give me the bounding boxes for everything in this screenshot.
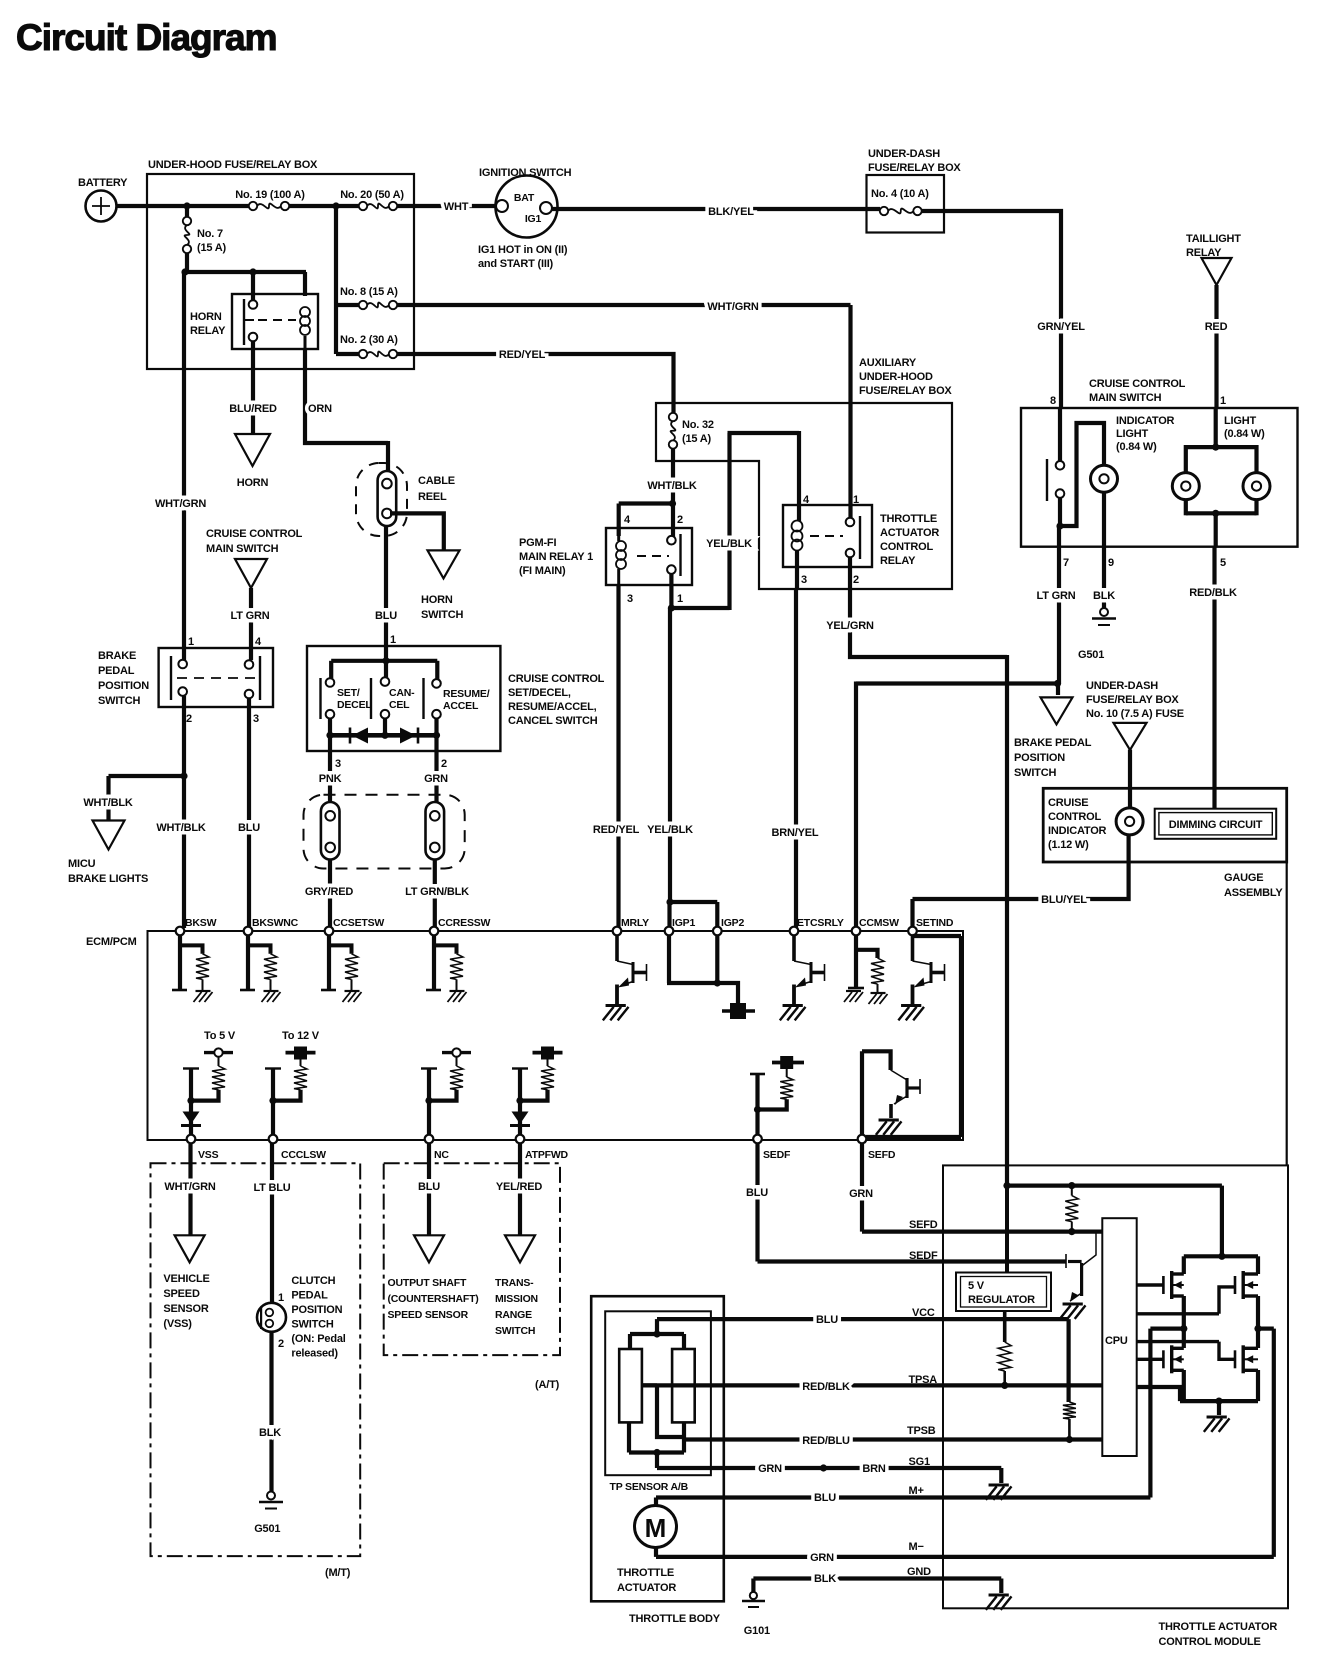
svg-text:BATTERY: BATTERY: [78, 177, 128, 189]
svg-text:LT GRN: LT GRN: [231, 610, 270, 622]
svg-text:SWITCH: SWITCH: [421, 609, 463, 621]
svg-text:IGP1: IGP1: [672, 917, 695, 929]
wire YEL/RED ATPFWD: [496, 1143, 543, 1235]
svg-text:WHT/BLK: WHT/BLK: [647, 480, 697, 492]
svg-text:SEDF: SEDF: [909, 1250, 938, 1262]
svg-text:VEHICLE: VEHICLE: [163, 1273, 209, 1285]
svg-text:WHT: WHT: [444, 201, 469, 213]
svg-text:WHT/BLK: WHT/BLK: [83, 797, 133, 809]
wire BLU/YEL indicator to ECM SETIND: [913, 835, 1129, 928]
svg-text:BLU: BLU: [375, 610, 397, 622]
svg-text:(FI MAIN): (FI MAIN): [519, 565, 566, 577]
ECM pin CCMSW: [852, 917, 899, 935]
wire BLU brake switch pin 3 to ECM BKSWNC: [238, 698, 260, 928]
svg-text:WHT/GRN: WHT/GRN: [155, 498, 206, 510]
ECM SETIND transistor: [898, 935, 944, 1020]
regulator transistor: [1060, 1233, 1096, 1319]
svg-text:POSITION: POSITION: [1014, 752, 1065, 764]
svg-text:CAN-: CAN-: [389, 687, 415, 699]
svg-text:CRUISE CONTROL: CRUISE CONTROL: [206, 528, 303, 540]
wire GRN SEFD: [849, 1143, 873, 1232]
M/T dashed box: [151, 1163, 361, 1579]
svg-text:2: 2: [677, 514, 683, 526]
ECM SEFD transistor: [862, 1051, 920, 1137]
throttle body box: [591, 1296, 724, 1625]
svg-text:CLUTCH: CLUTCH: [291, 1275, 335, 1287]
svg-text:NC: NC: [434, 1149, 449, 1161]
svg-text:SEDF: SEDF: [763, 1149, 791, 1161]
svg-text:FUSE/RELAY BOX: FUSE/RELAY BOX: [859, 385, 952, 397]
vehicle speed sensor triangle: [163, 1235, 209, 1330]
svg-text:(ON: Pedal: (ON: Pedal: [291, 1333, 345, 1345]
svg-text:RED/BLK: RED/BLK: [1189, 587, 1237, 599]
wire WHT/BLK brake switch pin 2 to ECM BKSW: [156, 696, 206, 928]
svg-text:1: 1: [390, 634, 396, 646]
wire BLU/RED horn relay to horn: [229, 341, 277, 433]
svg-text:ETCSRLY: ETCSRLY: [797, 917, 844, 929]
ECM pin VSS: [187, 1135, 219, 1161]
svg-text:BLK/YEL: BLK/YEL: [708, 206, 754, 218]
svg-text:CPU: CPU: [1105, 1335, 1128, 1347]
svg-text:BRAKE: BRAKE: [98, 650, 136, 662]
svg-text:SWITCH: SWITCH: [1014, 767, 1056, 779]
svg-text:3: 3: [253, 713, 259, 725]
svg-text:ORN: ORN: [308, 403, 332, 415]
H-bridge top node: [1184, 1186, 1258, 1260]
svg-text:5: 5: [1220, 557, 1226, 569]
wire WHT/BLK branch to MICU: [83, 776, 184, 820]
svg-text:and START (III): and START (III): [478, 258, 554, 270]
svg-text:CRUISE CONTROL: CRUISE CONTROL: [508, 673, 605, 685]
svg-text:YEL/BLK: YEL/BLK: [706, 538, 752, 550]
svg-text:2: 2: [278, 1338, 284, 1350]
ECM pin CCCLSW: [269, 1135, 326, 1161]
svg-text:No. 10 (7.5 A) FUSE: No. 10 (7.5 A) FUSE: [1086, 708, 1184, 720]
svg-text:LT BLU: LT BLU: [253, 1182, 290, 1194]
ECM SETIND bus wire (right edge): [866, 936, 961, 1137]
svg-text:(COUNTERSHAFT): (COUNTERSHAFT): [388, 1293, 479, 1305]
wire BLU NC: [418, 1143, 440, 1235]
wire YEL/GRN TAC relay pin 2 down to TAC module: [826, 557, 1007, 1186]
svg-text:AUXILIARY: AUXILIARY: [859, 357, 917, 369]
wire SG1 GRN-BRN: [657, 1456, 1012, 1500]
svg-text:POSITION: POSITION: [291, 1304, 342, 1316]
svg-text:BKSW: BKSW: [185, 917, 217, 929]
svg-text:SG1: SG1: [909, 1456, 930, 1468]
svg-text:No. 7: No. 7: [197, 228, 223, 240]
ECM SEDF pull-up unit: [750, 1056, 804, 1137]
wire BLU SEDF: [746, 1143, 768, 1262]
MICU brake lights triangle: [68, 821, 148, 886]
svg-text:No. 8 (15 A): No. 8 (15 A): [340, 286, 398, 298]
svg-text:BKSWNC: BKSWNC: [252, 917, 299, 929]
svg-text:CONTROL: CONTROL: [880, 541, 933, 553]
svg-text:1: 1: [188, 636, 194, 648]
cruise control set/decel resume/accel cancel switch: [307, 646, 500, 751]
svg-text:YEL/RED: YEL/RED: [496, 1181, 543, 1193]
ECM pin BKSW: [176, 917, 217, 935]
svg-text:SETIND: SETIND: [916, 917, 954, 929]
svg-text:2: 2: [853, 574, 859, 586]
svg-text:SPEED: SPEED: [163, 1288, 200, 1300]
svg-text:THROTTLE: THROTTLE: [880, 513, 937, 525]
svg-text:3: 3: [627, 593, 633, 605]
svg-text:OUTPUT SHAFT: OUTPUT SHAFT: [388, 1277, 467, 1289]
svg-text:3: 3: [335, 758, 341, 770]
throttle actuator control relay: [783, 494, 939, 586]
auxiliary under-hood fuse/relay box: [656, 357, 952, 589]
svg-text:TAILLIGHT: TAILLIGHT: [1186, 233, 1241, 245]
svg-text:BLK: BLK: [1093, 590, 1115, 602]
wire BLK pin 9 to G501: [1093, 493, 1115, 609]
svg-text:PNK: PNK: [319, 773, 342, 785]
svg-text:POSITION: POSITION: [98, 680, 149, 692]
svg-text:2: 2: [441, 758, 447, 770]
svg-text:CONTROL: CONTROL: [1048, 811, 1101, 823]
svg-text:ACCEL: ACCEL: [443, 700, 479, 712]
svg-text:GRN: GRN: [849, 1188, 873, 1200]
ECM ATPFWD unit (to 12V, diode): [510, 1047, 563, 1138]
svg-text:SENSOR: SENSOR: [163, 1303, 209, 1315]
svg-text:1: 1: [278, 1292, 284, 1304]
svg-text:GRN: GRN: [758, 1463, 782, 1475]
cruise switch lights (0.84 W): [1172, 408, 1270, 569]
wire BLK clutch switch to G501: [259, 1332, 281, 1492]
wire fuse No.10 to cruise control indicator: [1128, 750, 1132, 808]
output shaft speed sensor triangle: [388, 1235, 479, 1321]
svg-text:RED/YEL: RED/YEL: [593, 824, 640, 836]
ground G501 (main switch): [1078, 608, 1116, 661]
svg-text:HORN: HORN: [190, 311, 222, 323]
ECM MRLY transistor: [603, 935, 647, 1020]
wire TPSA RED/BLK: [642, 1374, 1102, 1393]
svg-text:WHT/GRN: WHT/GRN: [707, 301, 758, 313]
svg-text:9: 9: [1108, 557, 1114, 569]
svg-text:CANCEL SWITCH: CANCEL SWITCH: [508, 715, 598, 727]
fuse No.20 (50 A): [340, 189, 404, 210]
svg-text:THROTTLE ACTUATOR: THROTTLE ACTUATOR: [1159, 1621, 1278, 1633]
svg-text:THROTTLE: THROTTLE: [617, 1567, 674, 1579]
svg-text:M−: M−: [909, 1541, 924, 1553]
svg-text:SET/DECEL,: SET/DECEL,: [508, 687, 571, 699]
svg-text:G501: G501: [1078, 649, 1104, 661]
cable reel connectors (set/resume wires): [304, 795, 465, 869]
node brake pedal position switch junction: [1054, 680, 1061, 695]
svg-text:FUSE/RELAY BOX: FUSE/RELAY BOX: [868, 162, 961, 174]
ECM pin CCRESSW: [430, 917, 491, 935]
svg-text:RESUME/: RESUME/: [443, 688, 490, 700]
svg-text:1: 1: [1220, 395, 1226, 407]
SEFD pull-up resistor: [1065, 1186, 1078, 1232]
wire RED/BLK pin 5 to dimming circuit: [1189, 547, 1237, 809]
svg-text:(0.84 W): (0.84 W): [1116, 441, 1157, 453]
svg-text:UNDER-DASH: UNDER-DASH: [1086, 680, 1158, 692]
transmission range switch triangle: [495, 1235, 538, 1337]
TP sensor bottom bus: [629, 1422, 684, 1468]
ECM CCMSW unit: [844, 935, 888, 1004]
svg-text:G501: G501: [254, 1523, 280, 1535]
svg-text:REGULATOR: REGULATOR: [968, 1294, 1035, 1306]
svg-text:RESUME/ACCEL,: RESUME/ACCEL,: [508, 701, 597, 713]
ECM pin SEDF: [753, 1135, 791, 1161]
svg-text:ACTUATOR: ACTUATOR: [880, 527, 939, 539]
wire VCC: [657, 1307, 1069, 1402]
svg-text:BLU: BLU: [238, 822, 260, 834]
svg-text:IGP2: IGP2: [721, 917, 744, 929]
throttle actuator control module box: [943, 1165, 1288, 1648]
svg-text:LT GRN: LT GRN: [1037, 590, 1076, 602]
svg-text:BLU: BLU: [816, 1314, 838, 1326]
svg-text:TP SENSOR A/B: TP SENSOR A/B: [610, 1481, 689, 1493]
fuse No.19 (100 A): [235, 189, 305, 210]
horn relay: [190, 294, 318, 349]
svg-text:(15 A): (15 A): [197, 242, 226, 254]
svg-text:RED/BLU: RED/BLU: [802, 1435, 850, 1447]
svg-text:SWITCH: SWITCH: [495, 1325, 535, 1337]
svg-text:UNDER-DASH: UNDER-DASH: [868, 148, 940, 160]
svg-text:GRN: GRN: [424, 773, 448, 785]
brake pedal position switch feed triangle: [1014, 697, 1092, 779]
svg-text:BAT: BAT: [514, 192, 535, 204]
svg-text:(1.12 W): (1.12 W): [1048, 839, 1089, 851]
ECM pin MRLY: [613, 917, 649, 935]
cable reel: [356, 463, 455, 536]
horn switch: [421, 550, 463, 621]
svg-text:No. 19 (100 A): No. 19 (100 A): [235, 189, 305, 201]
fuse No.8 (15 A): [336, 286, 398, 309]
svg-text:UNDER-HOOD: UNDER-HOOD: [859, 371, 933, 383]
svg-text:PGM-FI: PGM-FI: [519, 537, 556, 549]
svg-text:WHT/BLK: WHT/BLK: [156, 822, 206, 834]
svg-text:(15 A): (15 A): [682, 433, 711, 445]
svg-text:7: 7: [1063, 557, 1069, 569]
svg-text:RELAY: RELAY: [880, 555, 916, 567]
svg-text:CEL: CEL: [389, 699, 410, 711]
ground G101: [742, 1579, 770, 1638]
TP sensor wiper taps: [642, 1385, 684, 1452]
CPU: [1102, 1218, 1136, 1456]
svg-text:MISSION: MISSION: [495, 1293, 538, 1305]
svg-text:SPEED SENSOR: SPEED SENSOR: [388, 1309, 469, 1321]
svg-text:SWITCH: SWITCH: [291, 1319, 333, 1331]
ignition switch: [478, 167, 572, 270]
svg-text:CCMSW: CCMSW: [859, 917, 899, 929]
svg-text:YEL/BLK: YEL/BLK: [647, 824, 693, 836]
svg-text:BLU: BLU: [418, 1181, 440, 1193]
svg-text:CRUISE CONTROL: CRUISE CONTROL: [1089, 378, 1186, 390]
wire cable reel to horn switch: [390, 513, 444, 550]
svg-text:RELAY: RELAY: [190, 325, 226, 337]
svg-text:To 5 V: To 5 V: [204, 1030, 236, 1042]
wire BLK/YEL ignition to under-dash fuse box: [552, 206, 880, 218]
svg-text:VSS: VSS: [198, 1149, 219, 1161]
svg-text:RED: RED: [1205, 321, 1228, 333]
ECM/PCM box: [86, 931, 963, 1140]
wire RED/YEL PGM-FI relay pin 3 to ECM MRLY: [593, 585, 640, 928]
module power rail: [1003, 1182, 1222, 1189]
svg-text:G101: G101: [744, 1625, 770, 1637]
svg-text:MAIN RELAY 1: MAIN RELAY 1: [519, 551, 593, 563]
ECM NC unit (to 5V): [421, 1048, 471, 1137]
wire GND BLK: [753, 1566, 1011, 1610]
taillight relay: [1186, 233, 1241, 285]
ECM IGP1/IGP2 internal bus: [667, 935, 755, 1019]
svg-text:LT GRN/BLK: LT GRN/BLK: [405, 886, 469, 898]
wire LT GRN to ECM CCMSW: [856, 682, 1058, 929]
svg-text:BLU: BLU: [746, 1187, 768, 1199]
svg-text:IG1 HOT in ON (II): IG1 HOT in ON (II): [478, 244, 568, 256]
cruise control indicator bulb (1.12 W): [1116, 808, 1143, 835]
svg-text:BRAKE LIGHTS: BRAKE LIGHTS: [68, 873, 148, 885]
svg-text:BRAKE PEDAL: BRAKE PEDAL: [1014, 737, 1092, 749]
wire RED taillight relay to cruise main switch pin 1: [1205, 285, 1228, 408]
TP sensor top bus: [630, 1319, 684, 1349]
svg-text:8: 8: [1050, 395, 1056, 407]
MOSFET Q3 (left bottom): [1137, 1329, 1184, 1402]
svg-text:No. 4 (10 A): No. 4 (10 A): [871, 188, 929, 200]
node M-: [1254, 1325, 1273, 1332]
wire LT GRN pin 7 down: [1037, 526, 1076, 684]
svg-text:LIGHT: LIGHT: [1116, 428, 1148, 440]
svg-text:GND: GND: [907, 1566, 931, 1578]
svg-text:MAIN SWITCH: MAIN SWITCH: [206, 543, 279, 555]
fuse No.32 (15 A): [669, 413, 714, 449]
wire YEL/BLK PGM-FI relay pin 1 to ECM IGP1: [647, 574, 717, 928]
svg-text:2: 2: [186, 713, 192, 725]
dimming circuit: [1155, 809, 1277, 839]
5V regulator: [956, 1186, 1051, 1311]
wire GRN/YEL fuse No.4 to cruise main switch pin 8: [922, 211, 1086, 408]
svg-text:FUSE/RELAY BOX: FUSE/RELAY BOX: [1086, 694, 1179, 706]
svg-text:(M/T): (M/T): [325, 1567, 351, 1579]
wire M- GRN: [656, 1329, 1274, 1564]
wire left vertical WHT/GRN from horn bus to brake switch pin 1: [155, 272, 206, 660]
ECM VSS unit (to 5V, diode): [181, 1048, 233, 1137]
svg-text:LIGHT: LIGHT: [1224, 415, 1256, 427]
A/T dashed box: [384, 1163, 560, 1391]
battery: [78, 177, 128, 222]
svg-text:ECM/PCM: ECM/PCM: [86, 936, 137, 948]
svg-text:SET/: SET/: [337, 687, 360, 699]
svg-text:YEL/GRN: YEL/GRN: [826, 620, 874, 632]
brake pedal position switch: [98, 636, 273, 725]
ECM pin BKSWNC: [244, 917, 299, 935]
svg-text:RED/YEL: RED/YEL: [499, 349, 546, 361]
svg-text:SEFD: SEFD: [909, 1219, 938, 1231]
svg-text:PEDAL: PEDAL: [98, 665, 135, 677]
svg-text:RANGE: RANGE: [495, 1309, 532, 1321]
svg-text:ACTUATOR: ACTUATOR: [617, 1582, 676, 1594]
svg-text:(A/T): (A/T): [535, 1379, 560, 1391]
ECM pin ETCSRLY: [790, 917, 844, 935]
ECM ETCSRLY transistor: [780, 935, 825, 1020]
wire WHT/GRN VSS: [164, 1143, 215, 1235]
wire BRN/YEL TAC relay pin 3 to ECM ETCSRLY: [772, 551, 819, 928]
wire battery to ignition (WHT): [116, 201, 496, 213]
wire fuse column: [332, 202, 339, 354]
wire GRN pin 2: [424, 735, 448, 802]
wire WHT/GRN fuse No.8 to TAC relay pin 1: [398, 301, 851, 518]
svg-text:1: 1: [853, 494, 859, 506]
ECM pin CCSETSW: [325, 917, 385, 935]
svg-text:CCCLSW: CCCLSW: [281, 1149, 326, 1161]
svg-text:To 12 V: To 12 V: [282, 1030, 320, 1042]
under-hood fuse/relay box: [147, 159, 414, 369]
svg-text:ASSEMBLY: ASSEMBLY: [1224, 887, 1283, 899]
wire TPSB RED/BLU: [684, 1425, 1102, 1447]
ECM input resistor unit at x=329: [321, 935, 362, 1002]
wire horn bus: [181, 268, 306, 300]
svg-text:3: 3: [801, 574, 807, 586]
svg-text:TPSA: TPSA: [909, 1374, 938, 1386]
ECM CCCLSW unit (to 12V): [265, 1047, 316, 1138]
under-dash fuse box No.10 feed triangle: [1086, 680, 1184, 750]
svg-text:5 V: 5 V: [968, 1280, 985, 1292]
svg-text:HORN: HORN: [421, 594, 453, 606]
ECM pin IGP2: [713, 917, 744, 935]
wire PNK pin 3: [319, 735, 342, 802]
svg-text:UNDER-HOOD FUSE/RELAY BOX: UNDER-HOOD FUSE/RELAY BOX: [148, 159, 318, 171]
svg-text:SEFD: SEFD: [868, 1149, 896, 1161]
svg-text:IGNITION SWITCH: IGNITION SWITCH: [479, 167, 572, 179]
svg-text:VCC: VCC: [912, 1307, 935, 1319]
TPSA pull-up resistor: [998, 1311, 1011, 1385]
ECM input resistor unit at x=434: [426, 935, 467, 1002]
fuse No.2 (30 A): [336, 334, 398, 358]
svg-text:MICU: MICU: [68, 858, 96, 870]
svg-text:No. 20 (50 A): No. 20 (50 A): [340, 189, 404, 201]
svg-text:GRN/YEL: GRN/YEL: [1037, 321, 1085, 333]
wire LT BLU CCCLSW: [253, 1143, 290, 1303]
node battery bus / fuse No.7: [183, 202, 227, 272]
svg-text:released): released): [291, 1348, 338, 1360]
PGM-FI main relay 1 (FI MAIN): [519, 514, 692, 605]
svg-text:Circuit Diagram: Circuit Diagram: [16, 17, 277, 58]
TPSB pull-up resistor: [1063, 1402, 1076, 1443]
wire YEL/BLK branch to TAC relay pin 4: [671, 431, 799, 610]
svg-text:BLK: BLK: [814, 1573, 836, 1585]
svg-text:1: 1: [677, 593, 683, 605]
ECM pin NC: [425, 1135, 450, 1161]
TP sensor elements: [619, 1349, 694, 1422]
under-dash fuse/relay box No.4: [867, 148, 962, 233]
ECM input resistor unit at x=248: [240, 935, 281, 1002]
wire SEFD into module: [862, 1219, 1102, 1235]
svg-text:GRN: GRN: [810, 1552, 834, 1564]
svg-text:CCSETSW: CCSETSW: [333, 917, 384, 929]
svg-text:HORN: HORN: [237, 477, 269, 489]
cruise control main switch triangle (left): [206, 528, 303, 588]
svg-text:BLU: BLU: [814, 1492, 836, 1504]
svg-text:THROTTLE BODY: THROTTLE BODY: [629, 1613, 721, 1625]
svg-text:GAUGE: GAUGE: [1224, 872, 1263, 884]
svg-text:BRN: BRN: [862, 1463, 885, 1475]
gauge assembly box: [1043, 788, 1287, 899]
svg-text:CABLE: CABLE: [418, 475, 455, 487]
svg-text:DECEL: DECEL: [337, 699, 372, 711]
ECM pin ATPFWD: [516, 1135, 569, 1161]
svg-text:DIMMING CIRCUIT: DIMMING CIRCUIT: [1169, 819, 1263, 831]
svg-text:No. 32: No. 32: [682, 419, 714, 431]
wire GRY/RED to ECM CCSETSW: [305, 860, 354, 929]
cruise main switch indicator light (0.84 W): [1060, 415, 1175, 526]
svg-text:SWITCH: SWITCH: [98, 695, 140, 707]
ECM pin SEFD: [858, 1135, 896, 1161]
svg-text:IG1: IG1: [525, 213, 542, 225]
svg-text:CCRESSW: CCRESSW: [438, 917, 491, 929]
svg-text:M+: M+: [909, 1485, 924, 1497]
wire ORN horn relay to cable reel: [305, 349, 388, 472]
